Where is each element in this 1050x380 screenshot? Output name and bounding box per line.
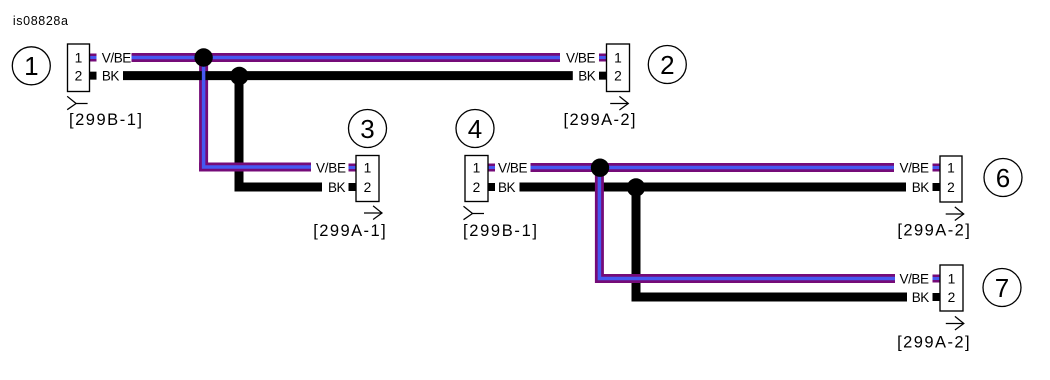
svg-text:is08828a: is08828a — [13, 14, 68, 28]
svg-text:V/BE: V/BE — [498, 160, 528, 175]
svg-text:1: 1 — [364, 160, 372, 175]
svg-text:V/BE: V/BE — [900, 160, 930, 175]
svg-text:2: 2 — [947, 180, 955, 195]
svg-text:1: 1 — [614, 50, 622, 65]
svg-text:V/BE: V/BE — [566, 50, 596, 65]
svg-text:7: 7 — [995, 273, 1009, 303]
svg-text:1: 1 — [947, 160, 955, 175]
svg-text:2: 2 — [660, 50, 674, 80]
svg-text:[299B-1]: [299B-1] — [463, 222, 537, 240]
svg-text:BK: BK — [912, 290, 930, 305]
svg-text:[299A-2]: [299A-2] — [564, 111, 636, 129]
svg-text:3: 3 — [360, 114, 374, 144]
svg-text:[299A-2]: [299A-2] — [897, 222, 970, 240]
svg-text:1: 1 — [948, 271, 956, 286]
svg-text:V/BE: V/BE — [316, 160, 346, 175]
svg-text:V/BE: V/BE — [102, 50, 132, 65]
svg-text:4: 4 — [468, 114, 482, 144]
svg-text:6: 6 — [996, 163, 1010, 193]
svg-text:2: 2 — [473, 180, 481, 195]
svg-text:1: 1 — [473, 160, 481, 175]
svg-text:BK: BK — [498, 180, 516, 195]
svg-text:2: 2 — [75, 68, 83, 83]
svg-text:[299B-1]: [299B-1] — [69, 111, 142, 129]
svg-text:BK: BK — [912, 180, 930, 195]
svg-text:2: 2 — [364, 180, 372, 195]
svg-text:[299A-2]: [299A-2] — [897, 333, 970, 351]
svg-text:1: 1 — [75, 50, 83, 65]
svg-text:2: 2 — [614, 68, 622, 83]
svg-text:BK: BK — [328, 180, 346, 195]
svg-text:2: 2 — [948, 290, 956, 305]
svg-text:1: 1 — [24, 51, 38, 81]
svg-text:BK: BK — [578, 68, 596, 83]
svg-text:[299A-1]: [299A-1] — [313, 222, 386, 240]
svg-text:V/BE: V/BE — [900, 271, 930, 286]
svg-text:BK: BK — [102, 68, 120, 83]
